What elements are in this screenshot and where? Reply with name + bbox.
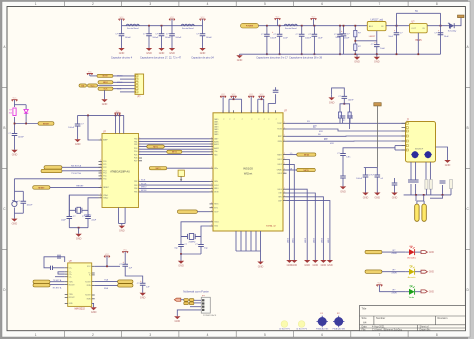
svg-text:3: 3 [149, 333, 151, 337]
wire [266, 26, 268, 35]
capacitor C24 [340, 116, 346, 118]
svg-text:GND: GND [329, 101, 335, 104]
svg-text:5: 5 [264, 333, 266, 337]
wire [344, 104, 349, 112]
power VCC [200, 17, 206, 21]
wire [87, 219, 89, 228]
port net 4 [297, 153, 316, 156]
wire [14, 190, 23, 192]
power port 3V3A [374, 103, 381, 106]
pin [275, 110, 277, 113]
wire [121, 224, 123, 226]
svg-text:NETA: NETA [304, 153, 310, 156]
wire data bus [139, 146, 210, 148]
ground [174, 316, 180, 323]
svg-text:100nF: 100nF [18, 137, 25, 139]
svg-text:ADR2: ADR2 [214, 147, 219, 150]
wire [275, 87, 277, 90]
capacitor C10 [334, 34, 350, 40]
wire data bus [139, 143, 210, 145]
capacitor C21 [174, 244, 187, 250]
wire [365, 168, 367, 175]
ruler ticks and zone labels [63, 2, 65, 7]
svg-text:100nF: 100nF [270, 38, 277, 40]
svg-text:PB2: PB2 [134, 144, 137, 146]
wire [241, 99, 243, 113]
wire [415, 184, 417, 195]
junction [161, 25, 163, 27]
wire [349, 118, 351, 129]
wire [275, 94, 277, 103]
svg-text:B: B [467, 126, 469, 130]
svg-text:PC1: PC1 [103, 164, 106, 166]
wire [120, 78, 135, 80]
pin [210, 180, 214, 182]
wire [410, 162, 412, 180]
svg-text:C2-: C2- [69, 276, 72, 278]
svg-text:GND: GND [178, 265, 184, 268]
wire [62, 170, 101, 172]
wire [62, 166, 101, 168]
svg-text:GND: GND [327, 264, 333, 267]
wire GND stem [104, 90, 106, 99]
wire data bus [139, 154, 210, 156]
svg-text:OPMD: OPMD [277, 170, 283, 172]
ground [236, 55, 242, 62]
svg-text:ATMEGA328P-AU: ATMEGA328P-AU [110, 171, 130, 174]
wire [250, 96, 252, 113]
svg-text:8: 8 [436, 333, 438, 337]
svg-text:100nF: 100nF [305, 38, 312, 40]
capacitor C16 [17, 201, 33, 207]
wire [430, 195, 443, 198]
port net 5 [297, 168, 316, 171]
wire [119, 223, 126, 225]
port P RX [118, 284, 133, 287]
wire [415, 162, 417, 180]
pin [283, 154, 287, 156]
svg-text:PC6: PC6 [103, 179, 106, 181]
wire [349, 118, 351, 123]
svg-text:GND: GND [292, 264, 298, 267]
pin [99, 194, 103, 196]
wire [268, 103, 275, 105]
ground [90, 307, 96, 314]
wire [450, 189, 452, 195]
svg-text:22pF: 22pF [61, 220, 66, 222]
capacitor C15 [8, 133, 24, 139]
power VCC [231, 94, 237, 98]
wire [180, 247, 182, 255]
wire [119, 115, 121, 133]
ground [304, 260, 310, 267]
svg-text:XTAL2: XTAL2 [103, 197, 108, 200]
svg-text:File:: File: [362, 328, 367, 331]
svg-text:AREF: AREF [103, 139, 108, 142]
wire [228, 99, 230, 113]
wire [121, 36, 123, 48]
svg-text:GND: GND [200, 52, 206, 55]
pushbutton SW1 [12, 200, 18, 206]
svg-text:GND: GND [363, 196, 369, 199]
svg-text:GND: GND [12, 223, 18, 226]
svg-text:GND: GND [12, 154, 18, 157]
wire [376, 177, 378, 193]
pin [263, 110, 265, 113]
wire TXOP [287, 122, 406, 124]
svg-text:PD5: PD5 [134, 154, 137, 156]
wire [331, 94, 333, 97]
capacitor C26 [337, 153, 351, 159]
ground [291, 260, 297, 267]
svg-text:LED: LED [409, 265, 414, 267]
wire [171, 26, 173, 34]
wire [313, 19, 315, 26]
wire reset to pin [14, 178, 100, 180]
junction [261, 98, 263, 100]
pin [210, 143, 214, 145]
resistor R5 [348, 112, 351, 118]
pin [283, 128, 287, 130]
svg-text:PD6: PD6 [134, 158, 137, 160]
svg-text:LED4: LED4 [278, 189, 282, 191]
pin [283, 159, 287, 161]
port net 1 [147, 145, 165, 148]
svg-text:GND: GND [304, 264, 310, 267]
wire [425, 162, 427, 180]
pin [210, 211, 214, 213]
svg-text:LED3: LED3 [278, 173, 282, 175]
capacitor C6 [261, 34, 277, 40]
pin [222, 110, 224, 113]
wire [202, 26, 204, 34]
svg-text:4: 4 [207, 333, 209, 337]
wire [263, 99, 265, 113]
wire [180, 254, 182, 261]
resistor R1 [354, 30, 357, 36]
pin [92, 294, 95, 296]
ground [11, 219, 17, 226]
wire [396, 35, 398, 54]
ground [11, 150, 17, 157]
svg-text:TXON: TXON [277, 129, 282, 131]
wire [142, 285, 144, 293]
pin [99, 197, 103, 199]
svg-text:PB0: PB0 [134, 139, 137, 141]
junction [106, 265, 108, 267]
mounting hole H2 [333, 313, 344, 327]
wire [287, 160, 290, 261]
svg-text:GND: GND [102, 103, 108, 106]
capacitor C29 [356, 175, 372, 181]
junction [115, 115, 117, 117]
svg-text:LM1117_adj: LM1117_adj [370, 19, 383, 21]
svg-text:NET3: NET3 [156, 168, 161, 170]
svg-text:100nF: 100nF [206, 37, 213, 39]
wire [356, 54, 358, 57]
ground [75, 234, 81, 241]
svg-text:6: 6 [321, 333, 323, 337]
pin [233, 110, 235, 113]
pin [210, 187, 214, 189]
svg-text:7: 7 [379, 2, 381, 6]
junction [301, 25, 303, 27]
svg-text:100nF: 100nF [165, 37, 172, 39]
svg-text:100nF: 100nF [356, 178, 363, 180]
wire [365, 177, 367, 193]
wire [161, 26, 163, 34]
wire XTAL1 [69, 195, 98, 216]
wire [417, 200, 424, 202]
port [88, 84, 98, 87]
wire [194, 299, 201, 301]
svg-text:Title: Title [362, 306, 367, 310]
svg-text:PD7: PD7 [134, 161, 137, 163]
svg-text:GND: GND [258, 265, 264, 268]
svg-text:470R: 470R [391, 253, 397, 255]
wire [171, 36, 173, 48]
svg-text:5: 5 [264, 2, 266, 6]
svg-text:CI SLOT P2: CI SLOT P2 [296, 329, 308, 331]
ground [199, 48, 205, 55]
ground [178, 261, 184, 268]
svg-text:LED5: LED5 [328, 237, 330, 243]
power VCC [122, 249, 128, 253]
junction [339, 53, 341, 55]
wire [404, 194, 451, 196]
wire [180, 237, 182, 245]
svg-text:FIXACAO M3: FIXACAO M3 [316, 328, 329, 331]
resistor R10 [450, 180, 453, 189]
svg-text:MISO: MISO [103, 82, 108, 84]
svg-text:POWER: POWER [246, 26, 254, 28]
port net 3 [149, 167, 167, 170]
power VCC [248, 94, 254, 98]
pin [99, 186, 103, 188]
svg-text:LED0: LED0 [287, 237, 289, 243]
fuse F1 [415, 204, 419, 221]
port LED net [365, 270, 382, 274]
ground [354, 57, 360, 64]
svg-text:LED2: LED2 [305, 237, 307, 243]
ground [169, 48, 175, 55]
svg-text:DAT6: DAT6 [214, 133, 218, 136]
wire [405, 271, 409, 273]
wire [394, 146, 396, 150]
wire +5V rail [397, 12, 441, 14]
svg-text:PC5: PC5 [103, 176, 106, 178]
ferrite bead FB1 [126, 24, 140, 30]
svg-text:470R: 470R [391, 272, 397, 274]
wire [396, 13, 398, 25]
svg-text:R1OUT: R1OUT [69, 284, 75, 286]
wire [415, 195, 417, 201]
svg-text:1: 1 [35, 333, 37, 337]
svg-text:Capacitor de pino 34: Capacitor de pino 34 [191, 56, 214, 59]
svg-text:LED: LED [409, 285, 414, 287]
junction [440, 25, 442, 27]
wire [78, 228, 80, 234]
junction [354, 25, 356, 27]
connector J1 RJ45 MagJack [406, 119, 436, 162]
svg-text:PC0: PC0 [103, 161, 106, 163]
port net 2 [167, 150, 182, 153]
resistor R3 pullup [9, 108, 16, 116]
svg-text:Nóbreak com Fonte: Nóbreak com Fonte [183, 290, 209, 294]
diode D1 Schottky [448, 23, 457, 32]
wire data bus [139, 140, 210, 142]
diode bridge DB1 [184, 299, 194, 305]
wire [266, 36, 268, 54]
wire [442, 185, 444, 195]
capacitor C9 [308, 34, 323, 40]
svg-text:GND: GND [169, 52, 175, 55]
svg-text:Drawn By:: Drawn By: [420, 328, 431, 331]
wire [13, 179, 15, 192]
junction [87, 115, 89, 117]
svg-text:Ferrite Bead: Ferrite Bead [285, 27, 297, 30]
wire [202, 19, 204, 26]
svg-text:RESET: RESET [103, 187, 109, 189]
svg-text:PD3: PD3 [134, 148, 137, 150]
wire [90, 75, 97, 77]
resistor R4 [338, 112, 341, 118]
wire [342, 178, 344, 186]
wire [277, 19, 279, 26]
wire [423, 201, 425, 204]
fuse F2 [422, 204, 426, 221]
svg-text:Ferrite Bead: Ferrite Bead [182, 27, 194, 30]
title block [360, 306, 466, 332]
power VCC [115, 111, 121, 115]
wire [113, 88, 135, 90]
pin [99, 178, 103, 180]
svg-text:GND: GND [75, 143, 81, 146]
wire [89, 73, 91, 76]
svg-text:Vermelho: Vermelho [407, 256, 417, 259]
ground [257, 262, 263, 269]
svg-text:MOSI: MOSI [214, 192, 219, 194]
wire [202, 36, 204, 48]
wire [377, 106, 379, 168]
wire [255, 231, 257, 251]
wire [436, 147, 448, 160]
svg-text:GND: GND [237, 59, 243, 62]
wire [239, 54, 241, 55]
wire [115, 115, 117, 133]
wire VCC filter rail 1 [122, 25, 203, 27]
regulator U2 7805 [410, 21, 428, 41]
pin [402, 130, 406, 132]
capacitor C20 [273, 90, 279, 92]
wire [301, 26, 303, 35]
svg-text:25MHz: 25MHz [189, 241, 196, 243]
capacitor C27 [340, 176, 346, 178]
wire [343, 26, 345, 34]
pin [210, 207, 214, 209]
junction [343, 103, 345, 105]
pin [92, 298, 95, 300]
svg-text:LM117: LM117 [369, 36, 376, 38]
wire [396, 26, 398, 33]
wire SPI [139, 191, 210, 193]
wire [267, 104, 269, 113]
svg-text:GND: GND [175, 320, 181, 323]
wire [260, 231, 262, 251]
wire [50, 281, 65, 283]
capacitor C17 [68, 124, 84, 130]
svg-text:SCK: SCK [117, 88, 122, 90]
svg-text:Capacitor de pino 4: Capacitor de pino 4 [111, 56, 133, 59]
resistor R6 [408, 180, 414, 182]
crystal Y2 25MHz [181, 234, 201, 244]
pin [65, 284, 68, 286]
svg-text:GND: GND [429, 272, 434, 274]
wire [235, 231, 237, 251]
power port GND arrow [421, 290, 427, 293]
wire [415, 291, 421, 293]
pin [139, 160, 143, 162]
pin [250, 110, 252, 113]
ground [119, 226, 125, 233]
svg-text:Number: Number [376, 316, 385, 320]
fiducial FID2 [298, 321, 305, 328]
pin [283, 188, 287, 190]
svg-text:XSCI: XSCI [214, 226, 218, 228]
wire [405, 291, 409, 293]
wire ground rail [240, 53, 441, 55]
wire [429, 162, 431, 180]
wire [98, 85, 136, 87]
wire [395, 149, 406, 151]
svg-text:MISO: MISO [141, 187, 147, 189]
pin [267, 110, 269, 113]
wire [430, 189, 432, 195]
svg-text:Verde: Verde [409, 296, 415, 299]
wire [181, 299, 184, 301]
pin [65, 281, 68, 283]
svg-text:4: 4 [207, 2, 209, 6]
wire data bus [139, 151, 210, 153]
pin [210, 138, 214, 140]
wire [118, 208, 120, 224]
wire [343, 36, 345, 54]
port net XTAL [177, 210, 197, 214]
wire [124, 208, 126, 224]
junction [396, 53, 398, 55]
wire [14, 136, 16, 150]
junction [78, 227, 80, 229]
wire [376, 47, 378, 55]
power VCC [376, 283, 382, 287]
power port GND arrow [421, 270, 427, 273]
ground [146, 48, 152, 55]
wire [68, 219, 70, 228]
pin [210, 203, 214, 205]
wire [245, 231, 247, 251]
pin [283, 122, 287, 124]
pin [210, 148, 214, 150]
junction [119, 115, 121, 117]
power VCC [259, 94, 265, 98]
pin [65, 271, 68, 273]
junction [354, 53, 356, 55]
wire [236, 250, 261, 252]
svg-text:PB4: PB4 [134, 188, 137, 190]
pin [99, 175, 103, 177]
port RX EXT A [33, 284, 50, 287]
pin [241, 110, 243, 113]
